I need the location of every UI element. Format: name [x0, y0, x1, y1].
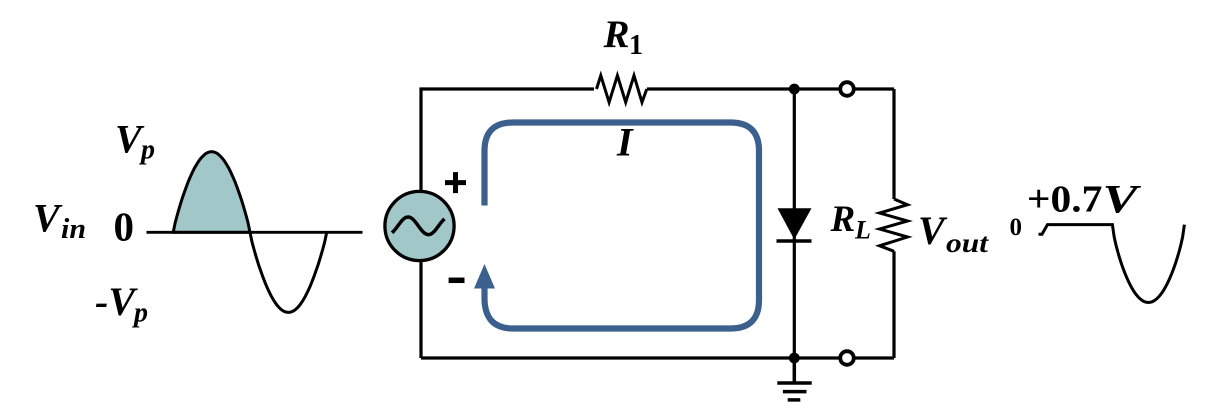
resistor R1: [597, 76, 647, 103]
svg-text:+0.7: +0.7: [1027, 179, 1103, 221]
resistor RL: [880, 199, 908, 251]
Vin negative half-cycle: [250, 232, 327, 312]
svg-text:L: L: [854, 215, 871, 244]
svg-text:V: V: [918, 208, 948, 253]
svg-text:R: R: [830, 199, 856, 240]
svg-text:R: R: [603, 13, 630, 56]
label +0.7V: [1027, 176, 1142, 221]
label RL: [830, 199, 871, 244]
wire top rail right segment: [647, 87, 894, 90]
wire bottom rail: [421, 356, 894, 359]
svg-text:p: p: [132, 297, 148, 328]
label Vout: [918, 208, 990, 258]
svg-text:in: in: [61, 214, 86, 245]
wire diode branch: [793, 89, 796, 358]
wire top rail left segment: [421, 89, 594, 193]
svg-text:out: out: [946, 228, 990, 258]
minus sign: [449, 278, 465, 284]
junction dot bottom: [789, 353, 800, 364]
svg-text:V: V: [1103, 176, 1142, 221]
wire left vertical below source: [419, 259, 422, 358]
label Vin: [33, 195, 86, 245]
current loop arrow: [474, 123, 759, 329]
svg-text:1: 1: [629, 30, 643, 61]
label R1: [603, 13, 644, 61]
ground: [777, 358, 811, 400]
node Vin axis line: [147, 231, 363, 234]
svg-text:-V: -V: [95, 279, 138, 324]
junction dot top: [789, 84, 800, 95]
plus sign: [445, 172, 466, 193]
svg-text:0: 0: [1010, 214, 1023, 241]
output waveform curve: [1039, 225, 1185, 303]
label -Vp: [95, 279, 148, 328]
svg-text:V: V: [33, 195, 63, 240]
svg-text:I: I: [616, 119, 634, 164]
wire right vertical bottom lead: [892, 251, 895, 358]
wire right vertical top lead: [892, 89, 895, 199]
Vin positive half-cycle (shaded): [173, 152, 250, 233]
svg-text:0: 0: [114, 204, 135, 250]
terminal bottom: [840, 351, 854, 365]
label Vp: [115, 117, 155, 166]
terminal top: [840, 82, 854, 96]
diode: [777, 208, 812, 241]
svg-text:p: p: [139, 135, 155, 166]
ac source: [385, 191, 454, 260]
